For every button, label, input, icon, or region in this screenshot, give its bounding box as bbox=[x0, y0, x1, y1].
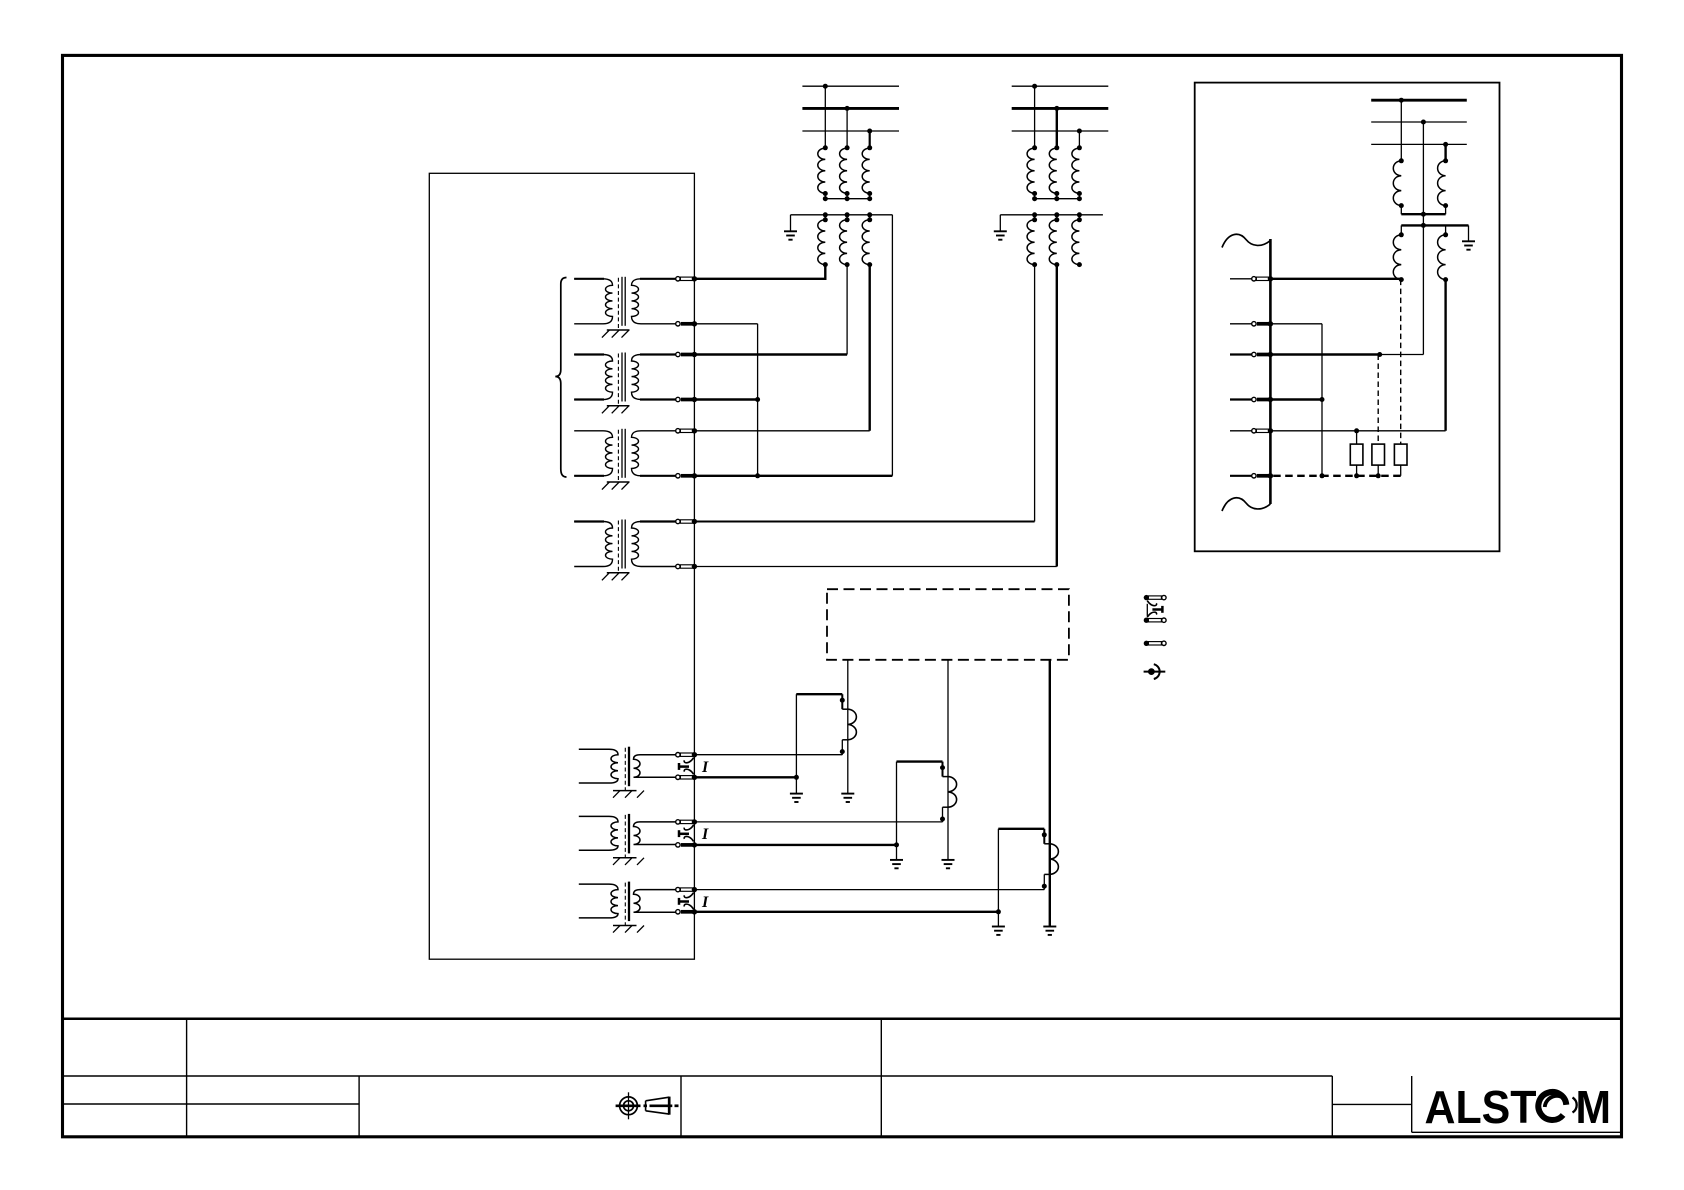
wire ct2 top to choke B bbox=[694, 821, 942, 823]
terminal row ct1 bottom bbox=[676, 775, 697, 780]
terminal row r5 bbox=[676, 428, 697, 433]
title block row line 2 mid bbox=[1332, 1103, 1411, 1105]
svg-text:ALST: ALST bbox=[1425, 1081, 1537, 1133]
bank1 wire s3 to r5 bbox=[869, 265, 871, 431]
box terminal t5 bbox=[1252, 428, 1273, 433]
box terminal t4 bbox=[1252, 397, 1273, 402]
wire ct1 bottom to earth leg bbox=[694, 776, 796, 778]
terminal row ct3 bottom bbox=[676, 909, 697, 914]
ALSTOM logo bbox=[1425, 1081, 1612, 1133]
VT secondary coil 2 bbox=[1445, 225, 1447, 234]
secondary top rail bbox=[1401, 224, 1468, 226]
wire t4 bbox=[1270, 398, 1322, 400]
bank1 wire s2 to r3 bbox=[846, 265, 848, 355]
terminal row ct2 top bbox=[676, 819, 697, 824]
bank2 wire s1 to r7 bbox=[1034, 265, 1036, 522]
svg-text:I: I bbox=[701, 826, 709, 843]
secondary coil s3 bbox=[1078, 215, 1080, 220]
rail earth bbox=[1468, 225, 1470, 241]
svg-text:M: M bbox=[1576, 1081, 1612, 1133]
secondary rail bbox=[791, 214, 893, 216]
title block top line bbox=[63, 1017, 1621, 1020]
choke B left leg to earth bbox=[896, 762, 898, 860]
terminal row r2 bbox=[676, 321, 697, 326]
resistor R2 bbox=[1372, 444, 1385, 465]
tap phase 1 bbox=[1034, 86, 1036, 148]
logo cell bottom line bbox=[1412, 1131, 1621, 1133]
terminal row r7 bbox=[676, 519, 697, 524]
title block row line 1 bbox=[63, 1075, 1332, 1077]
box terminal t1 bbox=[1252, 276, 1273, 281]
box bus L3 bbox=[1371, 143, 1467, 145]
choke C left leg to earth bbox=[997, 829, 999, 926]
legend earthing switch bbox=[1144, 664, 1166, 679]
primary coil p3 bbox=[1072, 148, 1080, 193]
box bus L2 bbox=[1371, 121, 1467, 123]
CT A bbox=[579, 747, 694, 798]
choke phase A bbox=[796, 694, 856, 755]
resistor R1 bbox=[1350, 444, 1363, 465]
wire ct3 bottom to earth leg bbox=[694, 911, 998, 913]
busbar L2 bbox=[1012, 107, 1109, 110]
title block divider v2 bbox=[358, 1076, 360, 1136]
title block divider v5 bbox=[1331, 1076, 1333, 1136]
conductor C from box (thick) bbox=[1049, 660, 1051, 926]
group brace bbox=[555, 278, 566, 478]
choke A left leg to earth bbox=[795, 694, 797, 793]
tap phase 3 bbox=[1078, 131, 1080, 148]
terminal row ct2 bottom bbox=[676, 842, 697, 847]
tap phase 3 (thick below L3) bbox=[869, 131, 871, 148]
bank1 rail end drop to r6 bbox=[891, 215, 893, 476]
busbar L3 bbox=[802, 130, 899, 132]
box terminal t2 bbox=[1252, 321, 1273, 326]
busbar L3 bbox=[1012, 130, 1109, 132]
VT primary coil 1 bbox=[1393, 161, 1401, 206]
choke phase B bbox=[897, 762, 957, 823]
first-angle projection symbol bbox=[616, 1092, 679, 1119]
wire r4 bbox=[694, 398, 757, 400]
incoming cable bus bbox=[1269, 239, 1272, 504]
VT primary coil 2 bbox=[1438, 161, 1446, 206]
CT B bbox=[579, 814, 694, 865]
box terminal stubs bbox=[1230, 278, 1252, 280]
VT T3 bbox=[574, 429, 680, 490]
VT T2 bbox=[574, 353, 680, 414]
title block divider v1 bbox=[186, 1019, 188, 1136]
VT tap 2 (thick) bbox=[1444, 144, 1446, 160]
secondary rail bbox=[1000, 214, 1103, 216]
cable break squiggle bottom bbox=[1222, 498, 1270, 511]
wire ct2 bottom to earth leg bbox=[694, 844, 896, 846]
terminal row r6 bbox=[676, 473, 697, 478]
neutral tap from L2 bbox=[1422, 122, 1424, 355]
wire t3 bbox=[1270, 353, 1379, 355]
secondary coil s3 bbox=[869, 215, 871, 220]
busbar L1 bbox=[802, 85, 899, 87]
terminal row r8 bbox=[676, 564, 697, 569]
title block row line 2 left bbox=[63, 1103, 359, 1105]
primary coil p3 bbox=[862, 148, 870, 193]
rail earth bbox=[999, 215, 1001, 231]
box bus L1 (thick) bbox=[1371, 99, 1467, 102]
rail earth bbox=[790, 215, 792, 231]
svg-text:I: I bbox=[701, 759, 709, 776]
conductor A from box bbox=[847, 660, 849, 793]
wire ct3 top to choke C bbox=[694, 889, 1044, 891]
primary coil p1 bbox=[818, 148, 826, 193]
terminal row r3 bbox=[676, 352, 697, 357]
secondary coil s1 bbox=[1034, 215, 1036, 220]
title block divider v3 bbox=[680, 1076, 682, 1136]
primary coil p1 bbox=[1027, 148, 1035, 193]
bank1 wire s1 to r1 bbox=[694, 265, 825, 279]
VT tap 1 bbox=[1400, 100, 1402, 161]
wire t6 (dashed) bbox=[1270, 475, 1400, 477]
primary coil p2 bbox=[1049, 148, 1057, 193]
terminal row r4 bbox=[676, 397, 697, 402]
busbar L2 bbox=[802, 107, 899, 110]
VT T1 bbox=[574, 277, 680, 338]
legend terminal pair with test link bbox=[1144, 595, 1166, 623]
busbar L1 bbox=[1012, 85, 1109, 87]
resistor R3 bbox=[1394, 444, 1407, 465]
secondary coil s1 bbox=[824, 215, 826, 220]
VT secondary coil 1 bbox=[1400, 225, 1402, 234]
relay panel rectangle bbox=[429, 173, 694, 959]
terminal row ct3 top bbox=[676, 887, 697, 892]
tap phase 2 (thick) bbox=[1056, 108, 1058, 147]
choke phase C bbox=[998, 829, 1058, 890]
VT T4 bbox=[574, 520, 680, 581]
box terminal t3 bbox=[1252, 352, 1273, 357]
secondary coil s2 bbox=[1056, 215, 1058, 220]
wire ct1 top to choke A bbox=[694, 754, 842, 756]
star point rail bbox=[825, 194, 869, 199]
tap phase 1 bbox=[824, 86, 826, 148]
primary bottom rail bbox=[1401, 206, 1445, 215]
legend single terminal bbox=[1144, 641, 1166, 646]
star point rail bbox=[1035, 194, 1080, 199]
conductor B from box bbox=[947, 660, 949, 860]
coil2 drop to t5 bbox=[1444, 280, 1446, 431]
CT C bbox=[579, 882, 694, 933]
terminal row ct1 top bbox=[676, 752, 697, 757]
wire t1 to secondary coil 1 bbox=[1270, 278, 1401, 280]
wire t2 bbox=[1270, 323, 1322, 325]
box terminal t6 bbox=[1252, 473, 1273, 478]
primary coil p2 bbox=[840, 148, 848, 193]
title block divider v6 (logo cell left) bbox=[1411, 1076, 1413, 1132]
secondary coil s2 bbox=[846, 215, 848, 220]
wire t5 bbox=[1270, 430, 1445, 432]
cable break squiggle top bbox=[1222, 234, 1270, 247]
svg-text:I: I bbox=[701, 894, 709, 911]
neutral link r2-r4-r6 bbox=[694, 323, 757, 325]
title block divider v4 bbox=[880, 1019, 882, 1136]
terminal row r1 bbox=[676, 276, 697, 281]
tap phase 2 bbox=[846, 108, 848, 147]
bank2 wire s2 to r8 bbox=[1056, 265, 1058, 567]
t2 drop link bbox=[1321, 324, 1323, 476]
